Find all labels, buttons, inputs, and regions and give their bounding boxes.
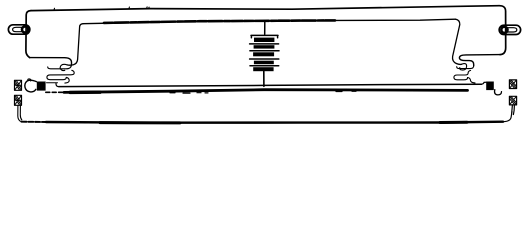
battery B1 thin plate 3 <box>250 50 279 52</box>
right hinge roll meander <box>457 66 474 69</box>
heater bar top sheet right step to terminal <box>482 82 488 84</box>
right mounting slot outer obround <box>499 25 520 34</box>
battery B1 thick plate 5 <box>253 67 273 71</box>
return wire left drop (doubled) <box>18 106 22 122</box>
battery B1 thick plate 1 <box>254 38 274 42</box>
left terminal contact block (solid) <box>37 82 46 91</box>
right end insulator block upper cell <box>509 80 516 89</box>
heater bar top sheet left end up-hook <box>56 83 59 86</box>
right mounting slot screw circle <box>501 27 507 33</box>
right end insulator block lower cell hatch <box>510 97 517 105</box>
left mounting slot outer obround <box>8 25 29 34</box>
battery B1 thin plate 5 <box>250 65 279 67</box>
return wire right rise (doubled) <box>503 105 514 122</box>
wire outer loop right vertical <box>499 6 506 55</box>
wire inner loop left vertical <box>67 24 83 66</box>
heater bar element thick line lead-in dashes <box>46 91 64 93</box>
left hinge roll meander lower <box>47 70 74 79</box>
battery B1 thin plate 4 <box>250 58 279 60</box>
battery B1 top feed wire <box>264 21 266 34</box>
right terminal contact block (solid) <box>486 82 494 91</box>
left end insulator block upper cell <box>15 80 22 90</box>
wire outer loop left lower jog <box>30 58 72 65</box>
right end insulator block lower cell <box>509 96 516 105</box>
battery B1 top plate line with end ticks <box>251 35 278 37</box>
right mounting slot inner slot <box>507 28 517 32</box>
left end insulator block upper cell hatch <box>15 81 21 90</box>
left end insulator block lower cell <box>15 95 22 105</box>
battery B1 thick plate 2 <box>254 45 275 48</box>
heater bar element thick line <box>64 90 468 93</box>
wire inner loop top line heavy inked portion <box>104 20 335 23</box>
left mounting slot screw circle <box>22 26 28 32</box>
wire outer loop right lower jog with U-turn capsule <box>459 55 500 66</box>
return wire bottom run lead dashes <box>22 121 47 123</box>
wire inner loop top line <box>83 19 456 24</box>
right end insulator block upper cell hatch <box>510 80 517 88</box>
left terminal curl dot <box>28 79 31 81</box>
right hinge roll exit hook <box>468 78 475 83</box>
battery B1 thin plate 2 <box>250 43 279 45</box>
heater bar short ledge left <box>47 82 58 84</box>
wire outer loop left vertical <box>26 11 31 58</box>
battery B1 thick plate 4 <box>254 61 274 64</box>
right terminal curl <box>495 90 502 95</box>
heater bar element ink drips <box>170 91 356 93</box>
node tick marks on top wire <box>54 7 149 10</box>
left mounting slot inner slot <box>13 27 23 31</box>
wire inner loop right vertical <box>453 19 462 64</box>
left terminal curl <box>25 80 37 92</box>
right hinge roll meander lower <box>454 70 471 79</box>
battery B1 bottom feed wire <box>263 71 265 86</box>
return wire bottom heavy segment <box>100 121 467 125</box>
left hinge roll exit hook <box>65 77 69 83</box>
left hinge roll meander <box>48 64 72 69</box>
left inner wire end curl <box>60 64 67 70</box>
heater bar top sheet line <box>59 84 482 86</box>
return wire bottom run <box>46 122 503 123</box>
heater bar element heavy inked stretch <box>70 90 100 94</box>
wire outer loop top line <box>31 6 499 11</box>
left end insulator block lower cell hatch <box>15 96 21 105</box>
right inner wire end curl <box>460 64 467 70</box>
battery B1 thick plate 3 <box>253 52 274 56</box>
